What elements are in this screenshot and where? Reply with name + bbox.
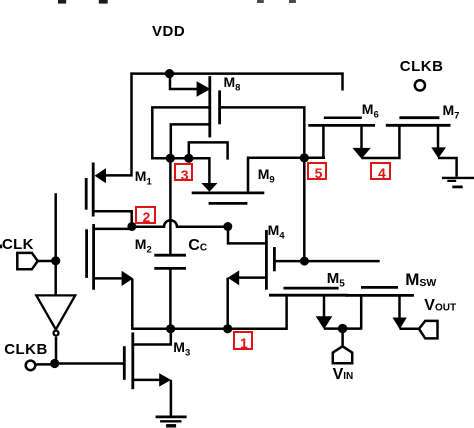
wire M4 gate to node 5: [274, 260, 379, 263]
node box 4: [370, 162, 391, 180]
junction dot node 3 left: [166, 154, 175, 163]
transistor M6 gate: [324, 117, 362, 120]
junction dot CLKB: [50, 359, 59, 368]
wire VDD rail: [130, 72, 343, 75]
wire M6 source leg: [322, 125, 325, 158]
label VIN: [333, 367, 354, 383]
port CLKB circle top: [415, 80, 425, 90]
junction dot node 3 right: [184, 154, 193, 163]
wire VDD left drop to M1 source: [105, 72, 132, 175]
transistor M2 gate: [85, 229, 88, 278]
wire M7 drain: [437, 125, 440, 148]
inverter output bubble: [54, 331, 59, 336]
transistor M6 channel: [308, 124, 375, 127]
label M6: [362, 102, 379, 120]
arrow M5 drain: [316, 316, 333, 329]
label MSW: [405, 271, 436, 289]
wire M9 source to node 5: [248, 158, 325, 193]
transistor M1 gate: [85, 178, 88, 210]
wire M8 gate to node 5: [220, 107, 305, 261]
label M3: [173, 340, 190, 358]
capacitor Cc top lead: [169, 158, 172, 254]
wire CLK: [38, 260, 56, 263]
port VIN pentagon: [333, 346, 352, 363]
arrow MSW drain: [393, 318, 407, 330]
label CLKB top: [400, 59, 444, 74]
node box 2: [135, 206, 156, 224]
wire M5 drain: [323, 295, 326, 316]
capacitor Cc plates: [154, 255, 186, 268]
ground M7: [442, 178, 474, 187]
port VOUT pentagon: [419, 321, 438, 339]
wire M2 source down: [131, 279, 134, 330]
wire M6 drain: [360, 125, 363, 148]
wire M4 drain: [228, 227, 268, 244]
transistor M8 gate: [218, 90, 221, 124]
label CLKB bottom: [4, 342, 48, 357]
wire M2 drain: [94, 228, 132, 231]
wire M4 source: [238, 276, 268, 279]
node box 5: [307, 162, 327, 180]
wire CLK vertical: [54, 193, 57, 295]
wire VOUT: [400, 328, 420, 331]
wire node 3 horizontal: [151, 157, 210, 160]
transistor M5 channel: [269, 294, 349, 297]
port CLK pentagon: [17, 253, 37, 269]
wire VDD right stub: [341, 72, 344, 90]
arrow M7 drain: [431, 147, 446, 158]
wire MSW source leg: [360, 295, 363, 329]
arrow M6 drain: [352, 148, 370, 159]
wire feedback tap upper: [152, 107, 210, 159]
junction dot tail Cc: [166, 324, 175, 333]
label VOUT: [424, 298, 456, 314]
wire VDD dot to M8 source: [170, 74, 197, 89]
junction dot VIN: [338, 324, 347, 333]
label M8: [224, 75, 241, 93]
junction dot node 2 left: [127, 222, 136, 231]
junction dot node 2 right: [223, 222, 232, 231]
wire M7 to ground: [438, 158, 457, 177]
wire M3 source: [133, 379, 160, 382]
label M4: [268, 223, 285, 241]
wire CLKB to node: [36, 363, 54, 366]
junction dot tail M4: [223, 324, 232, 333]
wire M5 source leg: [285, 295, 288, 330]
transistor M4 channel: [265, 230, 268, 290]
transistor M3 channel: [131, 332, 134, 389]
label M1: [135, 169, 152, 187]
label M9: [258, 167, 275, 185]
transistor M5 gate: [284, 287, 339, 290]
cropped text fragments at top edge: [58, 0, 296, 4]
wire M1 drain: [93, 211, 132, 226]
wire node 2 with hop: [132, 220, 228, 227]
inverter U1: [36, 295, 75, 329]
transistor M9 channel: [192, 191, 265, 194]
label M2: [135, 237, 152, 255]
node box 3: [174, 163, 194, 182]
transistor MSW gate: [361, 286, 398, 289]
wire M3 source to ground: [170, 380, 173, 416]
wire tail rail node 1: [132, 328, 287, 331]
transistor M4 gate: [273, 247, 276, 271]
wire M9 drain: [208, 158, 211, 183]
wire M2 source: [94, 277, 122, 280]
arrow M1 source: [95, 168, 106, 183]
transistor M1 channel: [92, 163, 95, 217]
junction dot CLK: [51, 256, 60, 265]
transistor M7 gate: [399, 116, 439, 119]
arrow M4 source: [228, 270, 240, 285]
node box 1: [233, 331, 253, 350]
ground M3: [156, 417, 187, 426]
label CLK: [2, 237, 34, 252]
label Cc: [188, 238, 207, 254]
wire VIN node: [324, 327, 361, 330]
wire M8 drain bracket: [189, 142, 228, 159]
transistor M2 channel: [92, 224, 95, 290]
cropped glyph left edge near CLK: [0, 245, 2, 249]
junction dot node 5: [300, 153, 309, 162]
transistor M7 channel: [386, 124, 451, 127]
transistor M8 channel: [208, 76, 211, 137]
transistor MSW channel: [346, 294, 414, 297]
arrow M2 source: [122, 271, 134, 286]
label M5: [327, 271, 345, 290]
junction dot M4 gate node 5: [300, 257, 309, 266]
junction dot VDD: [165, 69, 174, 78]
transistor M9 gate: [209, 202, 248, 205]
wire M3 drain: [133, 329, 171, 345]
wire VIN lead: [341, 329, 344, 347]
wire inverter output: [55, 337, 58, 364]
transistor M3 gate: [123, 346, 126, 380]
label VDD: [152, 24, 185, 39]
wire node 4: [362, 125, 400, 158]
wire feedback tap lower: [171, 124, 210, 158]
port CLKB circle bottom: [26, 361, 36, 371]
arrow M9 drain: [201, 183, 217, 192]
arrow M8 source: [197, 81, 211, 97]
arrow M3 source: [159, 373, 171, 386]
wire M3 gate: [55, 362, 126, 365]
wire MSW drain: [398, 295, 401, 317]
capacitor Cc bottom lead: [169, 269, 172, 329]
wire M4 source down: [226, 278, 229, 329]
label M7: [443, 103, 460, 121]
